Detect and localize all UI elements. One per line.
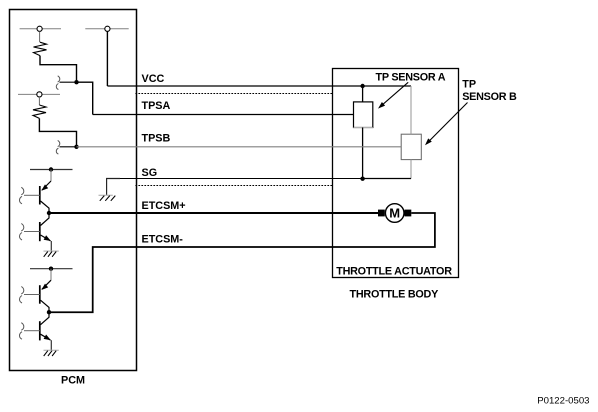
wire node A to TPSA line: [77, 82, 93, 114]
TP sensor A box U1: [354, 102, 373, 128]
connector arc C2: [58, 140, 60, 146]
connector arc C1: [58, 76, 60, 82]
arrow to sensor B: [429, 103, 468, 142]
wire sensor B bottom to node C: [363, 178, 411, 180]
transistor Q4 base lead: [24, 330, 40, 332]
node A junction dot: [74, 80, 78, 84]
sensor A branch vertical wire: [362, 86, 364, 102]
resistor R1: [34, 42, 47, 55]
PCM enclosure box: [10, 10, 137, 371]
wire R1 to elbow: [40, 56, 77, 83]
dotted line VCC-TPSA: [135, 93, 332, 95]
VCC wire horizontal: [107, 85, 362, 87]
node F junction dot ETCSM-: [47, 310, 51, 314]
wire circle T1 to resistor R1: [39, 31, 41, 42]
svg-text:SG: SG: [142, 167, 158, 179]
node D junction dot: [74, 145, 78, 149]
wire circle T3 to resistor R2: [38, 97, 40, 105]
terminal T3 line: [18, 93, 60, 95]
ETCSM- wire: [49, 213, 435, 312]
ETCSM+ wire: [49, 212, 378, 214]
terminal T4 dot: [49, 167, 53, 171]
wire R2 to elbow: [39, 118, 76, 146]
svg-text:M: M: [389, 206, 400, 221]
TPSA wire: [93, 114, 354, 116]
transistor Q1 base bar: [39, 186, 41, 205]
THROTTLE ACTUATOR box: [333, 69, 459, 278]
SG wire: [120, 178, 363, 180]
arrow to sensor A: [381, 82, 408, 106]
wire node B to sensor B branch: [363, 85, 411, 87]
ground G2: [44, 251, 59, 257]
terminal T4 line: [30, 169, 73, 171]
stub wire arc to node A: [60, 81, 77, 83]
connector arc C3: [21, 187, 24, 195]
svg-text:PCM: PCM: [61, 375, 85, 387]
terminal T5 line: [30, 268, 73, 270]
resistor R2: [33, 105, 46, 118]
terminal T3 circle: [37, 92, 42, 97]
motor M1 left terminal: [378, 210, 385, 217]
connector arc C6: [21, 323, 24, 331]
terminal T1 line: [20, 28, 61, 30]
transistor Q4 emitter wire: [50, 340, 52, 350]
dotted line SG-ETCSM: [135, 185, 332, 187]
ground G3: [44, 350, 59, 356]
transistor Q1 collector: [41, 201, 50, 213]
svg-text:TP SENSOR A: TP SENSOR A: [376, 72, 446, 84]
node E junction dot ETCSM+: [47, 211, 51, 215]
transistor Q4 emitter diagonal with arrow: [41, 334, 51, 340]
svg-text:TPSA: TPSA: [142, 100, 171, 112]
svg-text:ETCSM-: ETCSM-: [142, 234, 184, 246]
transistor Q3 base bar: [39, 285, 41, 304]
svg-text:SENSOR B: SENSOR B: [462, 91, 517, 103]
transistor Q2 collector: [41, 213, 50, 226]
transistor Q2 emitter diagonal with arrow: [41, 235, 51, 241]
transistor Q1 emitter wire: [50, 170, 52, 182]
transistor Q2 base bar: [39, 222, 41, 241]
svg-text:VCC: VCC: [142, 73, 165, 85]
terminal T1 circle: [37, 26, 42, 31]
transistor Q1 emitter diagonal with arrow: [42, 181, 51, 190]
connector arc C5: [21, 287, 24, 295]
VCC wire vertical: [106, 31, 108, 86]
svg-text:TP: TP: [462, 79, 476, 91]
transistor Q2 emitter wire: [50, 241, 52, 251]
stub wire arc to node D: [60, 146, 77, 148]
svg-text:THROTTLE BODY: THROTTLE BODY: [350, 288, 440, 300]
motor M1 circle: [385, 204, 404, 223]
transistor Q3 emitter diagonal with arrow: [42, 280, 51, 289]
motor M1 right terminal: [405, 210, 412, 217]
svg-text:ETCSM+: ETCSM+: [142, 200, 186, 212]
svg-text:P0122-0503: P0122-0503: [537, 395, 589, 406]
node C junction dot SG: [360, 177, 364, 181]
terminal T2 circle: [105, 26, 110, 31]
svg-text:THROTTLE ACTUATOR: THROTTLE ACTUATOR: [336, 266, 452, 278]
sensor B branch vertical wire: [410, 86, 412, 134]
transistor Q4 collector: [41, 312, 50, 325]
terminal T5 dot: [49, 267, 53, 271]
TPSB wire: [77, 146, 402, 148]
transistor Q1 base lead: [24, 194, 40, 196]
ground G1 (SG): [99, 195, 116, 201]
terminal T2 line: [85, 28, 128, 30]
transistor Q4 base bar: [39, 321, 41, 340]
svg-text:TPSB: TPSB: [142, 133, 171, 145]
node B junction dot VCC: [360, 84, 364, 88]
transistor Q3 base lead: [24, 294, 40, 296]
transistor Q3 collector: [41, 300, 50, 312]
connector arc C4: [21, 224, 24, 232]
transistor Q3 emitter wire: [50, 269, 52, 281]
transistor Q2 base lead: [24, 231, 40, 233]
TP sensor B box U2: [401, 134, 421, 159]
